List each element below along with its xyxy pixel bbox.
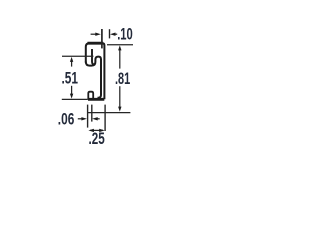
dim .10 left arrow	[91, 33, 96, 35]
extension bar E4 (.10 right)	[109, 29, 111, 38]
extension line E1 (.51 top, hook top surface)	[62, 55, 93, 57]
dim .51 top arrow (up)	[71, 60, 73, 67]
svg-text:.10: .10	[117, 25, 133, 44]
profile outer contour: left edge, top-left corner, top edge, top-right corner, right edge	[86, 43, 105, 99]
dim .81 top arrow (up)	[119, 49, 121, 69]
extension line E6 (.81 bottom)	[88, 112, 131, 114]
dim .25 line with outward arrows	[90, 129, 103, 131]
svg-text:.81: .81	[115, 69, 130, 88]
dim .51 bottom arrow (down)	[71, 86, 73, 95]
barb (inner lip)	[92, 49, 95, 65]
bottom wall bar	[88, 98, 104, 101]
dim .06 left arrow	[78, 118, 83, 120]
svg-text:.25: .25	[89, 129, 105, 148]
extension bar E9 (.25 right)	[104, 105, 106, 131]
foot bump	[88, 92, 93, 100]
svg-text:.51: .51	[62, 69, 79, 88]
extension bar E7 (.06/.25 left)	[87, 105, 89, 128]
extension bar E8 (.06 right)	[91, 105, 93, 122]
hook: bottom-left arc, hook bottom, up-arc, hook top, arc into slot right wall, slot wall down, J-curve at bottom	[86, 57, 101, 98]
dim .06 right arrow	[97, 118, 100, 120]
extension line E2 (.51 bottom, profile bottom)	[62, 98, 88, 100]
svg-text:.06: .06	[58, 110, 75, 129]
top wall thick overlay	[88, 42, 104, 45]
dim .10 right arrow	[115, 33, 117, 35]
extension bar E3 (.10 left, slot wall extension)	[101, 29, 103, 48]
dim .81 bottom arrow (down)	[119, 86, 121, 108]
extension line E5 (.81 top)	[107, 44, 133, 46]
